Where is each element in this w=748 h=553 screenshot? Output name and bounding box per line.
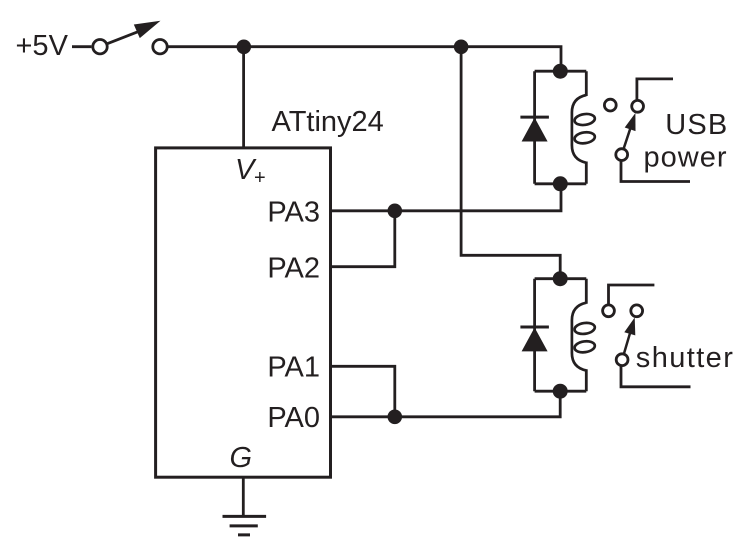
switch K1 arm <box>624 128 631 148</box>
junction dot rail/relay2 feed <box>454 40 469 55</box>
diode D2 cathode bar <box>520 326 549 329</box>
wire PA2 up to PA3 <box>331 211 395 267</box>
diode D1 triangle <box>522 118 548 142</box>
svg-text:PA2: PA2 <box>267 252 320 284</box>
svg-text:power: power <box>644 141 728 173</box>
relay K1 frame <box>535 71 587 184</box>
switch K1 NO contact <box>632 100 644 112</box>
wire PA0 to relay K2 bottom <box>331 391 561 417</box>
wire switch K1 bottom stub <box>621 161 690 182</box>
switch K2 NO contact <box>631 305 643 317</box>
IC U1 ATtiny24 box <box>156 148 331 477</box>
wire PA1 down to PA0 <box>331 366 395 417</box>
wire from +5V to switch <box>72 45 91 48</box>
switch K2 arm <box>624 333 630 354</box>
wire switch K2 top stub <box>609 285 655 305</box>
svg-text:PA1: PA1 <box>267 352 320 384</box>
switch K1 common contact <box>616 149 628 161</box>
switch K2 common contact <box>616 354 628 366</box>
switch S1 arrowhead <box>134 21 161 38</box>
wire switch K2 bottom stub <box>621 366 691 387</box>
switch S1 arm <box>108 31 140 44</box>
svg-text:G: G <box>230 442 253 474</box>
relay K2 frame <box>535 279 587 392</box>
junction dot rail/V+ <box>237 40 252 55</box>
wire V+ drop <box>242 47 245 148</box>
switch K2 arm arrowhead <box>624 318 635 336</box>
svg-text:USB: USB <box>665 109 728 141</box>
wire G to ground <box>242 477 245 516</box>
wire switch K1 top stub <box>637 79 673 101</box>
svg-text:shutter: shutter <box>636 342 734 374</box>
node relay K2 top <box>553 271 568 286</box>
ground symbol <box>223 516 267 535</box>
inductor L1 relay K1 coil <box>572 95 586 163</box>
svg-text:PA3: PA3 <box>267 196 320 228</box>
switch S1 (power switch) left contact <box>93 40 107 54</box>
node relay K1 top <box>553 64 568 79</box>
switch K1 NC contact <box>604 99 616 111</box>
junction dot PA3/PA2 <box>388 204 403 219</box>
wire feed to relay K2 (crosses PA3 wire, no junction) <box>461 47 560 274</box>
svg-text:PA0: PA0 <box>267 402 320 434</box>
node relay K2 bottom <box>553 384 568 399</box>
svg-text:+5V: +5V <box>16 30 69 62</box>
svg-text:+: + <box>254 167 266 189</box>
wire PA3 to relay K1 bottom <box>331 184 562 211</box>
junction dot PA1/PA0 <box>388 410 403 425</box>
diode D1 cathode bar <box>520 116 549 119</box>
diode D2 triangle <box>522 328 548 352</box>
switch S1 right contact <box>153 40 167 54</box>
inductor L2 relay K2 coil <box>572 303 586 371</box>
switch K2 NC contact <box>603 305 615 317</box>
svg-text:ATtiny24: ATtiny24 <box>272 106 384 138</box>
wire top +5V rail <box>167 47 561 66</box>
switch K1 arm arrowhead <box>625 113 636 131</box>
node relay K1 bottom <box>553 176 568 191</box>
